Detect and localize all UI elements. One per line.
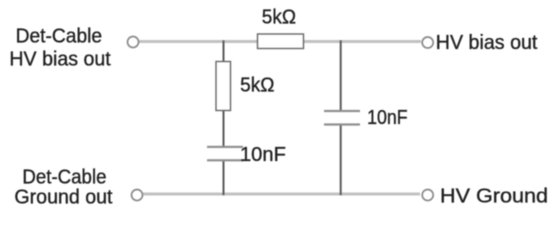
svg-text:5kΩ: 5kΩ [240, 74, 274, 97]
svg-text:HV bias out: HV bias out [9, 48, 111, 70]
svg-text:Ground out: Ground out [14, 186, 113, 208]
svg-text:HV Ground: HV Ground [440, 185, 548, 207]
svg-text:5kΩ: 5kΩ [262, 6, 296, 29]
svg-text:Det-Cable: Det-Cable [16, 25, 103, 47]
svg-text:10nF: 10nF [367, 107, 407, 129]
svg-text:HV bias out: HV bias out [436, 32, 538, 54]
svg-text:Det-Cable: Det-Cable [22, 166, 106, 189]
svg-text:10nF: 10nF [240, 144, 286, 166]
